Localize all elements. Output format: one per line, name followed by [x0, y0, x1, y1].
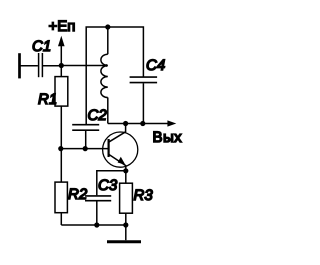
svg-text:R1: R1: [38, 91, 57, 108]
svg-text:C3: C3: [98, 177, 118, 194]
svg-text:C4: C4: [146, 57, 165, 74]
svg-text:Вых: Вых: [153, 129, 183, 146]
input terminal: [18, 53, 21, 78]
wire emitter to C3: [97, 171, 126, 196]
resistor R3: [120, 183, 133, 213]
ground junction dot: [123, 222, 128, 227]
wire C4 to output rail: [142, 83, 144, 123]
power +Ep arrowhead: [58, 36, 65, 46]
transistor VT1: [103, 124, 138, 171]
resistor R1: [55, 77, 68, 107]
base rail wire: [61, 148, 108, 150]
tap junction: [105, 64, 108, 67]
wire C2 to base rail: [85, 131, 87, 149]
top rail wire: [86, 27, 143, 124]
wire C3 to ground rail: [96, 201, 98, 225]
svg-text:C1: C1: [32, 38, 51, 55]
capacitor C3: [85, 196, 111, 201]
transistor body circle: [103, 132, 138, 167]
inductor L coil: [101, 27, 108, 124]
wire R1 to base node: [60, 106, 62, 149]
capacitor C4: [130, 77, 158, 83]
emitter junction dot: [123, 168, 128, 173]
resistor R2: [55, 182, 67, 213]
wire emitter to R3: [125, 171, 127, 183]
base bar: [107, 139, 109, 157]
svg-text:R3: R3: [134, 187, 154, 204]
emitter arrowhead: [118, 157, 126, 165]
wire R3 to ground rail: [125, 213, 127, 225]
collector lead: [109, 124, 126, 143]
wire R2 to ground rail: [60, 213, 62, 225]
output arrowhead: [167, 120, 176, 126]
base node junction dot: [58, 146, 63, 151]
svg-text:+Еп: +Еп: [49, 18, 76, 35]
capacitor C1: [39, 53, 43, 77]
node A junction dot: [59, 63, 64, 68]
svg-text:R2: R2: [68, 186, 88, 203]
C3 ground junction dot: [94, 222, 99, 227]
wire C1 to node A: [43, 65, 61, 67]
ground rail wire: [61, 224, 126, 226]
collector junction dot: [123, 121, 128, 126]
wire node A to coil tap: [61, 65, 107, 67]
top rail junction dot: [105, 24, 110, 29]
power +Ep arrow stem: [60, 45, 62, 66]
C2 bottom junction dot: [83, 146, 88, 151]
wire base node to R2: [60, 149, 62, 183]
capacitor C2: [72, 125, 99, 131]
svg-text:C2: C2: [88, 107, 108, 124]
emitter lead: [109, 154, 126, 171]
output rail wire: [108, 123, 169, 125]
wire node A to R1: [60, 66, 62, 77]
ground: [107, 225, 141, 242]
C4 junction dot: [140, 121, 145, 126]
wire input to C1: [21, 65, 38, 67]
